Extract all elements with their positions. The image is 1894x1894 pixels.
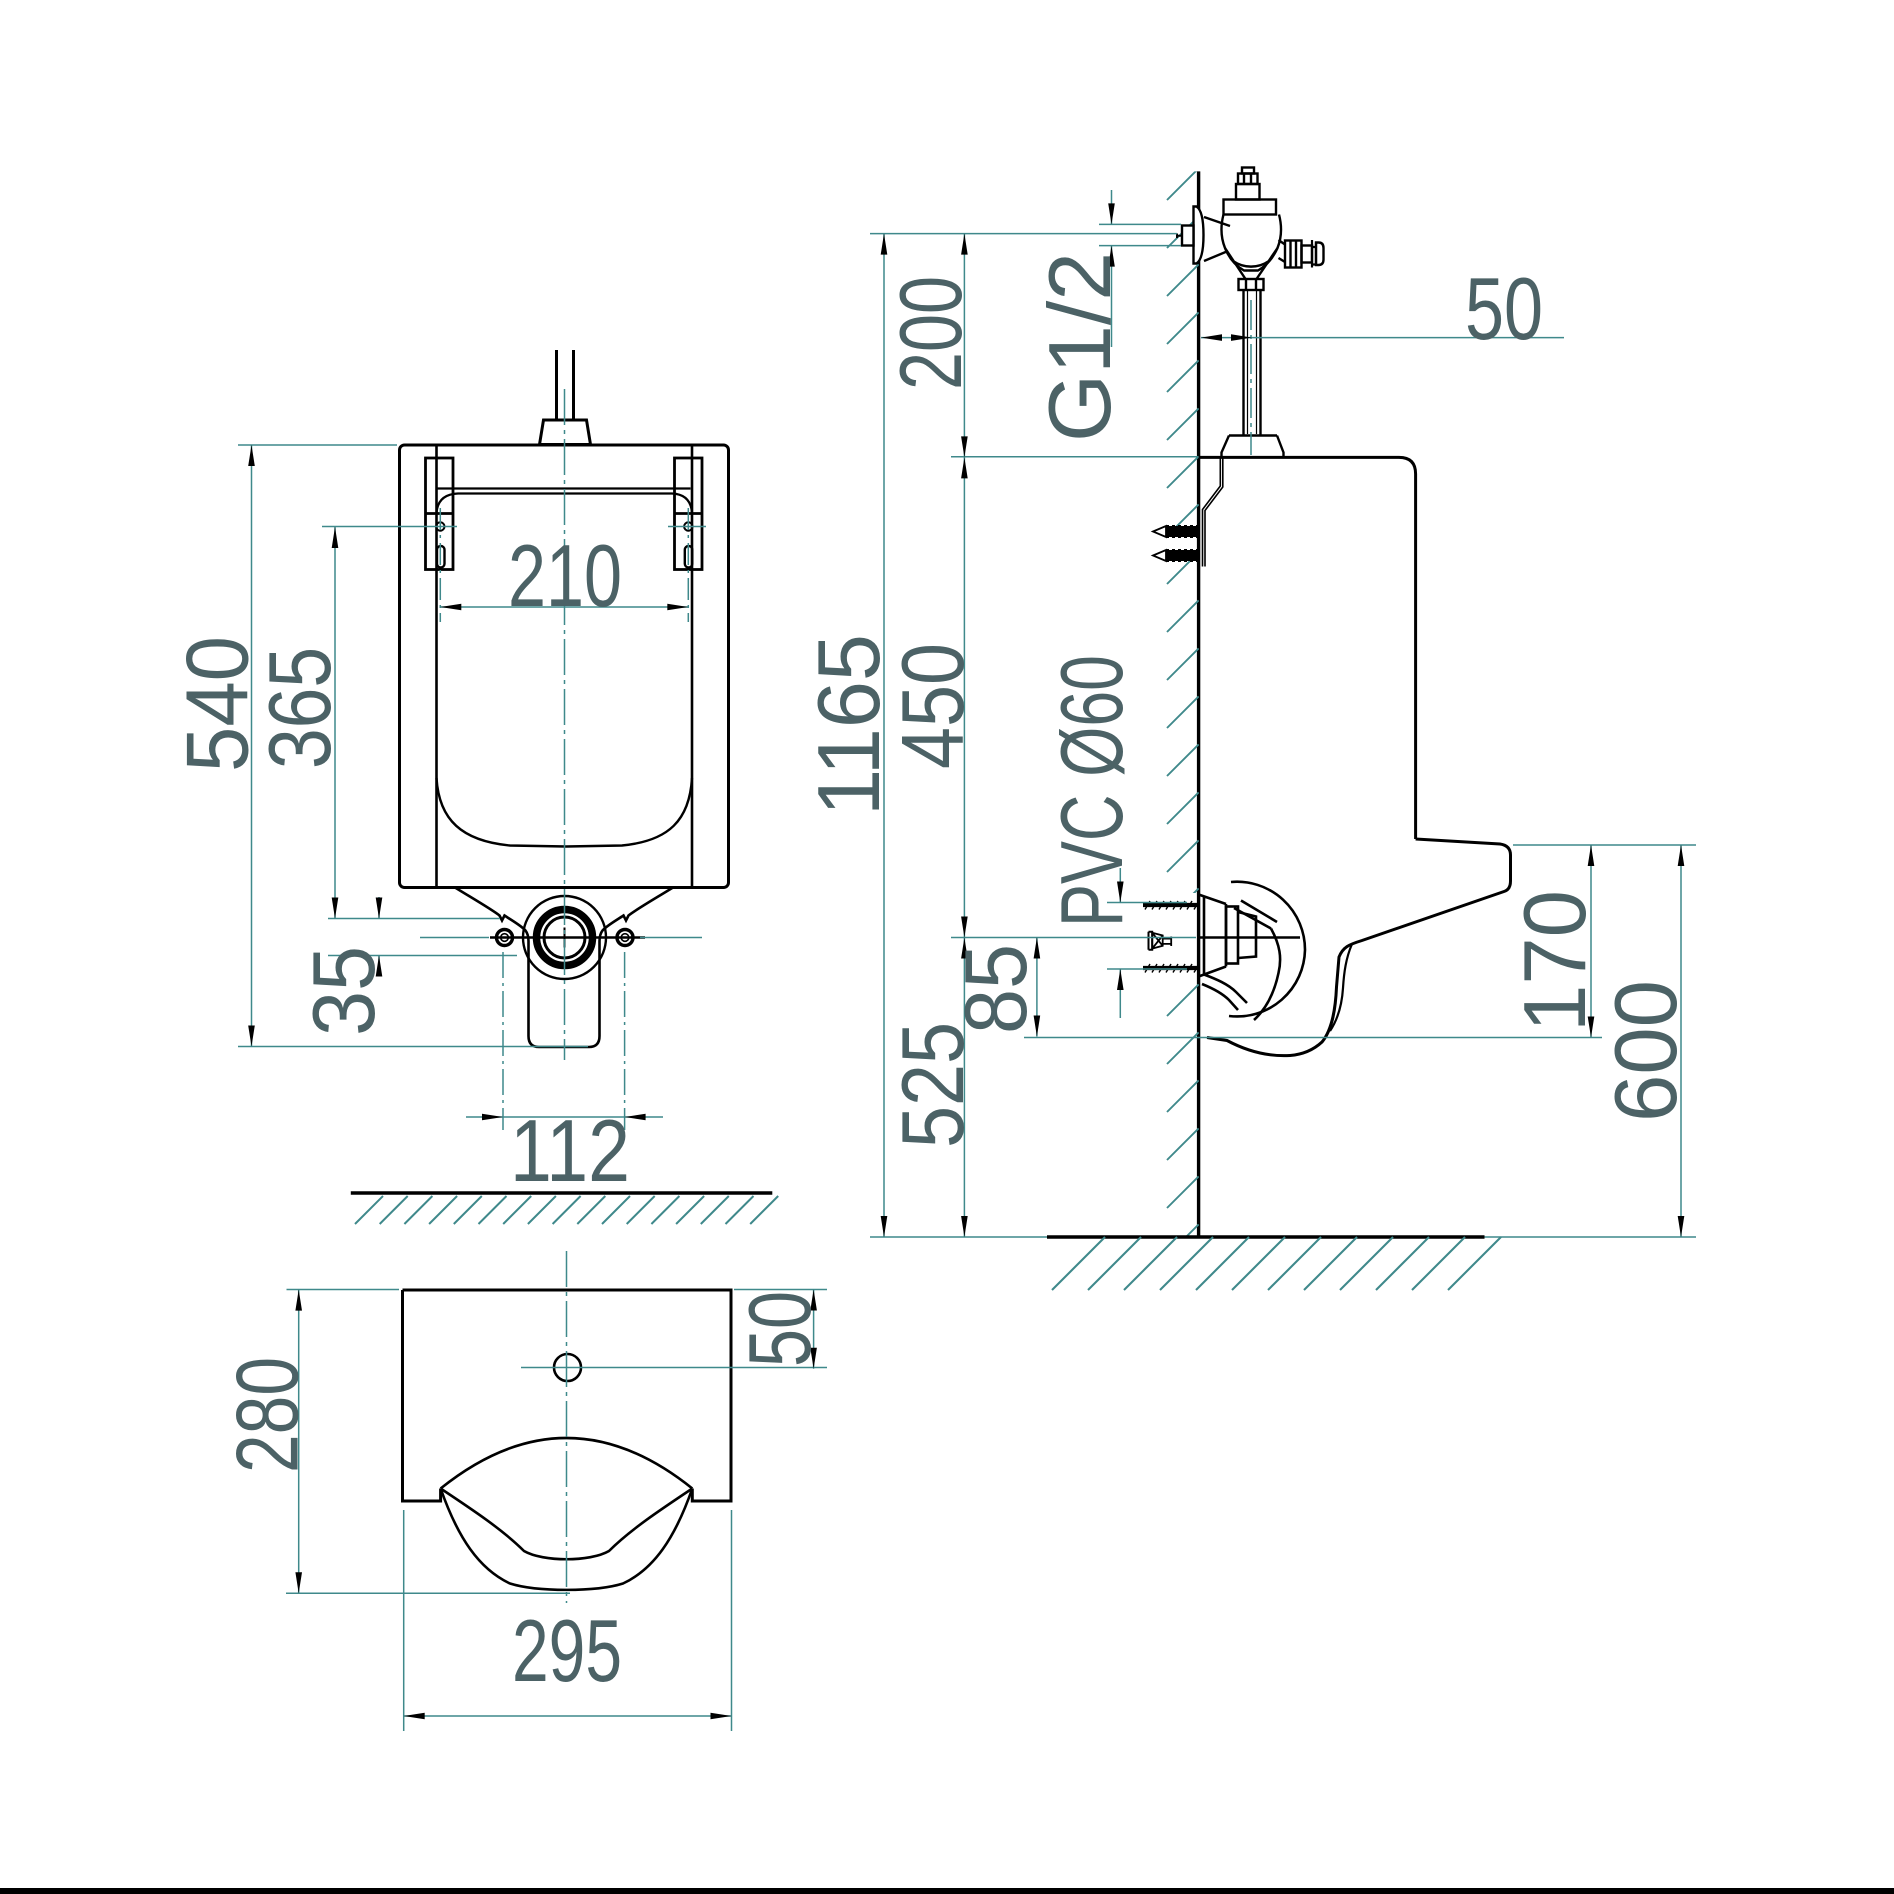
svg-text:525: 525 xyxy=(883,1022,982,1148)
svg-text:200: 200 xyxy=(881,276,980,390)
svg-text:170: 170 xyxy=(1505,890,1604,1032)
svg-text:600: 600 xyxy=(1596,980,1695,1122)
svg-text:85: 85 xyxy=(946,944,1045,1034)
svg-text:450: 450 xyxy=(883,643,982,769)
svg-text:50: 50 xyxy=(1465,259,1543,358)
svg-text:280: 280 xyxy=(218,1357,317,1473)
svg-text:210: 210 xyxy=(508,526,622,625)
svg-text:35: 35 xyxy=(294,946,393,1036)
svg-text:G1/2: G1/2 xyxy=(1030,252,1129,442)
svg-text:112: 112 xyxy=(510,1101,630,1200)
svg-text:365: 365 xyxy=(250,647,349,769)
svg-text:50: 50 xyxy=(730,1291,829,1367)
svg-text:295: 295 xyxy=(512,1601,622,1700)
svg-text:PVC Ø60: PVC Ø60 xyxy=(1042,655,1141,927)
